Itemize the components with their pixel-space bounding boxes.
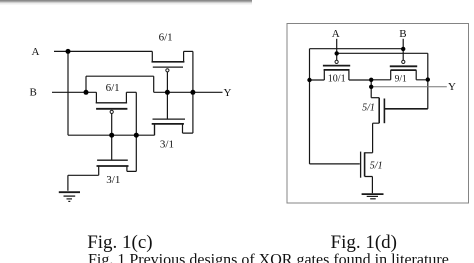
svg-text:6/1: 6/1 (106, 82, 120, 94)
svg-text:3/1: 3/1 (106, 174, 120, 186)
svg-text:Fig. 1 Previous designs of XOR: Fig. 1 Previous designs of XOR gates fou… (88, 251, 449, 263)
svg-text:B: B (30, 86, 37, 98)
svg-text:10/1: 10/1 (328, 73, 346, 84)
svg-text:Fig. 1(d): Fig. 1(d) (331, 232, 398, 253)
svg-text:3/1: 3/1 (160, 138, 174, 150)
svg-text:6/1: 6/1 (159, 31, 173, 43)
svg-text:A: A (332, 28, 340, 40)
svg-text:5/1: 5/1 (370, 160, 383, 171)
svg-text:Y: Y (448, 81, 456, 93)
svg-text:B: B (399, 28, 406, 40)
svg-text:5/1: 5/1 (362, 103, 375, 114)
svg-text:Fig. 1(c): Fig. 1(c) (87, 232, 152, 253)
svg-text:9/1: 9/1 (395, 74, 407, 84)
svg-text:A: A (32, 46, 40, 58)
svg-text:Y: Y (224, 87, 232, 99)
